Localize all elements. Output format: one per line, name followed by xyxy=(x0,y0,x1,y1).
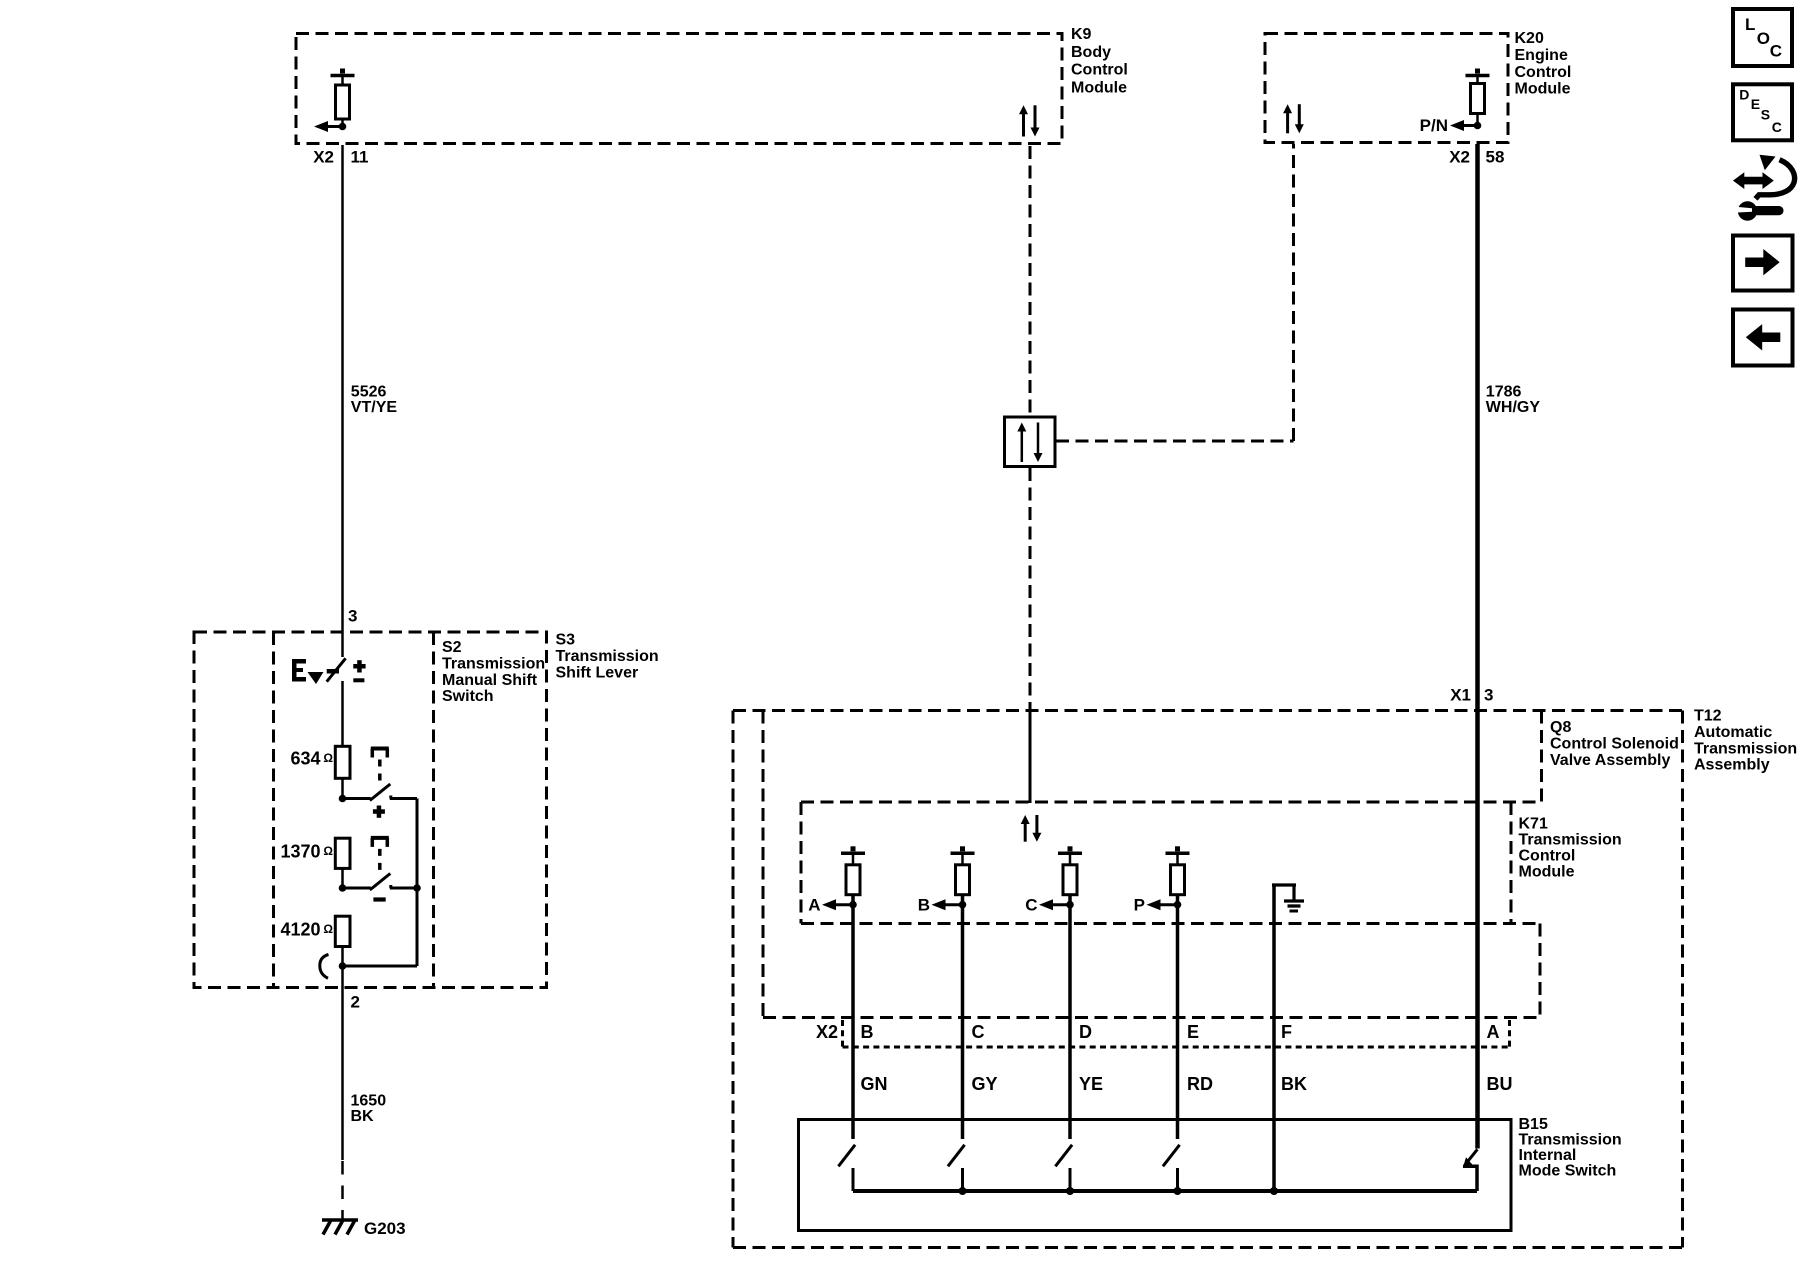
K71 solenoid driver A xyxy=(822,846,865,910)
K20 serial data up/down arrows xyxy=(1283,104,1304,133)
icon LOC box xyxy=(1733,9,1792,66)
B15 Transmission Internal Mode Switch box xyxy=(799,1120,1512,1231)
svg-text:Control Solenoid: Control Solenoid xyxy=(1550,736,1679,753)
svg-text:Mode Switch: Mode Switch xyxy=(1519,1163,1617,1180)
wire color label BK xyxy=(1281,1074,1307,1094)
resistor 4120 ohm xyxy=(335,916,350,946)
K71 Transmission Control Module box (dashed) xyxy=(801,802,1542,924)
wire 634 to junction xyxy=(341,778,344,798)
connector pin letter F xyxy=(1281,1022,1292,1042)
K71 pin letter P xyxy=(1134,895,1145,914)
bottom horizontal wire to rail xyxy=(343,965,418,968)
K20 label xyxy=(1515,30,1572,97)
K71 pin letter B xyxy=(918,895,930,914)
svg-text:Transmission: Transmission xyxy=(1694,740,1797,757)
svg-text:Automatic: Automatic xyxy=(1694,724,1772,741)
wire label 1650 BK xyxy=(351,1093,387,1125)
K71 serial data up/down arrows xyxy=(1021,815,1042,842)
wire color label GN xyxy=(861,1074,888,1094)
wire color label YE xyxy=(1079,1074,1103,1094)
wire below blade to resistor 634 xyxy=(341,681,344,746)
icon next-page box (right arrow) xyxy=(1733,236,1793,291)
svg-text:WH/GY: WH/GY xyxy=(1486,399,1541,416)
svg-text:Module: Module xyxy=(1071,79,1127,96)
B15 BU switch blade with arrow xyxy=(1463,1149,1478,1191)
svg-text:P: P xyxy=(1134,895,1145,914)
svg-text:D: D xyxy=(1079,1022,1092,1042)
dashed data wire connector down to Q8 edge xyxy=(1029,468,1032,706)
svg-text:C: C xyxy=(1770,41,1782,60)
svg-text:Shift Lever: Shift Lever xyxy=(556,664,639,681)
svg-text:K9: K9 xyxy=(1071,26,1092,43)
resistor 634 ohm xyxy=(335,746,350,778)
connector label X2 pin 58 at K20 xyxy=(1449,147,1504,166)
svg-text:4120: 4120 xyxy=(280,919,320,939)
svg-text:L: L xyxy=(1745,15,1755,34)
K71 internal ground symbol xyxy=(1272,885,1304,911)
svg-text:Q8: Q8 xyxy=(1550,719,1571,736)
S2 box inner dashed vertical right xyxy=(432,632,435,988)
T12 Automatic Transmission Assembly box (dashed) xyxy=(733,711,1683,1248)
svg-text:Transmission: Transmission xyxy=(556,648,659,665)
S2 plus-minus symbol xyxy=(353,660,365,682)
svg-text:K71: K71 xyxy=(1519,816,1548,833)
wire YE from K71 to B15 xyxy=(1068,905,1072,1139)
wire color label GY xyxy=(972,1074,998,1094)
wire BK ground from K71 to B15 bus xyxy=(1272,885,1276,1191)
svg-text:Ω: Ω xyxy=(323,751,333,765)
svg-text:X2: X2 xyxy=(313,147,334,166)
label 4120 ohm xyxy=(280,919,333,939)
solid data wire Q8 edge to K71 edge xyxy=(1029,706,1032,803)
svg-text:F: F xyxy=(1281,1022,1292,1042)
svg-text:C: C xyxy=(1772,119,1782,135)
Q8 Control Solenoid Valve Assembly box (dashed) xyxy=(763,711,1542,1018)
K9 label xyxy=(1071,26,1128,96)
G203 label xyxy=(364,1219,406,1238)
svg-text:B: B xyxy=(918,895,930,914)
dashed data wire from K9 to inline connector xyxy=(1029,146,1032,416)
B15 label xyxy=(1519,1116,1622,1180)
svg-text:X2: X2 xyxy=(816,1022,838,1042)
wire GN from K71 to B15 xyxy=(851,905,855,1139)
S3 label xyxy=(556,632,659,682)
S2 label xyxy=(442,639,545,705)
svg-text:T12: T12 xyxy=(1694,708,1722,725)
svg-text:Transmission: Transmission xyxy=(442,656,545,673)
svg-text:YE: YE xyxy=(1079,1074,1103,1094)
svg-text:Engine: Engine xyxy=(1515,47,1568,64)
minus symbol for tap down xyxy=(373,897,385,901)
wire GY from K71 to B15 xyxy=(961,905,965,1139)
wire out of S3 bottom xyxy=(341,966,344,1160)
svg-text:Transmission: Transmission xyxy=(1519,1132,1622,1149)
right rail of S2 switches xyxy=(416,799,419,967)
svg-text:D: D xyxy=(1739,87,1749,103)
K71 pin letter A xyxy=(808,895,820,914)
B15 switch blade for YE wire xyxy=(1055,1145,1072,1191)
svg-text:B: B xyxy=(861,1022,874,1042)
P/N label xyxy=(1420,116,1448,135)
plus symbol for tap up xyxy=(373,806,385,818)
wire above blade inside S2 xyxy=(341,632,344,657)
module K9 Body Control Module box (dashed) xyxy=(296,34,1062,144)
svg-text:E: E xyxy=(1187,1022,1199,1042)
module K20 Engine Control Module box (dashed) xyxy=(1265,34,1508,143)
svg-text:C: C xyxy=(1025,895,1037,914)
svg-text:Manual Shift: Manual Shift xyxy=(442,672,538,689)
wire 1370 to junction xyxy=(341,868,344,888)
pin 3 label at S3 top xyxy=(348,606,357,625)
K9 serial data up/down arrows xyxy=(1019,105,1040,136)
icon prev-page box (left arrow) xyxy=(1733,310,1793,366)
connector X2 label at Q8 bottom xyxy=(816,1022,838,1042)
pin 2 label at S3 bottom xyxy=(351,992,360,1011)
svg-text:X2: X2 xyxy=(1449,147,1470,166)
connector pin letter C xyxy=(972,1022,985,1042)
K20 P/N input driver (coil+resistor) xyxy=(1450,69,1490,132)
junction node on right rail xyxy=(413,884,421,892)
S3 Transmission Shift Lever outer box (dashed) xyxy=(194,632,547,988)
dashed data wire corner up to K20 xyxy=(1292,144,1295,441)
connector pin letter A xyxy=(1487,1022,1500,1042)
svg-text:Internal: Internal xyxy=(1519,1147,1577,1164)
connector pin letter D xyxy=(1079,1022,1092,1042)
icon DESC box xyxy=(1733,84,1792,140)
svg-text:Ω: Ω xyxy=(323,844,333,858)
svg-text:Module: Module xyxy=(1515,81,1571,98)
svg-text:X1: X1 xyxy=(1450,685,1471,704)
wire label 1786 WH/GY xyxy=(1486,384,1541,416)
K71 solenoid driver P xyxy=(1147,846,1190,910)
svg-text:3: 3 xyxy=(348,606,357,625)
S2 tap switch blade xyxy=(327,658,346,681)
connector pin letter E xyxy=(1187,1022,1199,1042)
svg-text:Transmission: Transmission xyxy=(1519,832,1622,849)
K71 label xyxy=(1519,816,1622,881)
svg-text:O: O xyxy=(1757,29,1770,48)
dashed data wire connector to corner xyxy=(1056,440,1294,443)
S2 wiper hook symbol xyxy=(320,955,329,979)
connector label X2 pin 11 at K9 xyxy=(313,147,368,166)
S2 momentary contact - (tap down) xyxy=(346,838,417,890)
svg-text:Ω: Ω xyxy=(323,922,333,936)
svg-text:Module: Module xyxy=(1519,864,1575,881)
junction node below 634 xyxy=(339,795,347,803)
K71 solenoid driver B xyxy=(932,846,975,910)
bus junction dot xyxy=(1174,1187,1182,1195)
svg-text:3: 3 xyxy=(1484,685,1493,704)
bus junction dot xyxy=(1066,1187,1074,1195)
bus junction dot xyxy=(959,1187,967,1195)
junction BK wire on bus xyxy=(1270,1187,1278,1195)
svg-text:VT/YE: VT/YE xyxy=(351,399,398,416)
wire 4120 to bottom junction xyxy=(341,947,344,967)
S2 momentary contact + (tap up) xyxy=(346,749,417,801)
svg-text:S3: S3 xyxy=(556,632,576,649)
svg-text:A: A xyxy=(1487,1022,1500,1042)
K9 output driver (coil+resistor) xyxy=(314,69,355,133)
svg-text:Control: Control xyxy=(1071,62,1128,79)
connector X2 dotted bracket xyxy=(843,1020,1510,1047)
Q8 label xyxy=(1550,719,1679,769)
svg-text:E: E xyxy=(1751,96,1760,112)
B15 switch blade for GY wire xyxy=(948,1145,965,1191)
svg-text:Control: Control xyxy=(1515,64,1572,81)
svg-text:1370: 1370 xyxy=(280,841,320,861)
label 1370 ohm xyxy=(280,841,333,861)
connector label X1 pin 3 at T12 xyxy=(1450,685,1493,704)
svg-text:C: C xyxy=(972,1022,985,1042)
svg-text:GN: GN xyxy=(861,1074,888,1094)
wire label 5526 VT/YE xyxy=(351,384,398,416)
B15 switch blade for RD wire xyxy=(1163,1145,1180,1191)
svg-text:S2: S2 xyxy=(442,639,462,656)
connector pin letter B xyxy=(861,1022,874,1042)
dashed wire to ground xyxy=(341,1161,344,1219)
svg-text:Valve Assembly: Valve Assembly xyxy=(1550,752,1670,769)
ground G203 symbol xyxy=(322,1220,358,1235)
svg-text:Assembly: Assembly xyxy=(1694,757,1770,774)
B15 switch blade for GN wire xyxy=(838,1145,855,1191)
svg-text:BK: BK xyxy=(1281,1074,1307,1094)
wire color label BU xyxy=(1487,1074,1513,1094)
B15 common bus bar xyxy=(853,1189,1477,1193)
svg-text:Switch: Switch xyxy=(442,688,494,705)
svg-text:GY: GY xyxy=(972,1074,998,1094)
svg-text:BU: BU xyxy=(1487,1074,1513,1094)
wire color label RD xyxy=(1187,1074,1213,1094)
svg-text:2: 2 xyxy=(351,992,360,1011)
bottom junction node xyxy=(339,962,347,970)
svg-text:BK: BK xyxy=(351,1108,375,1125)
svg-text:634: 634 xyxy=(290,748,320,768)
svg-text:G203: G203 xyxy=(364,1219,406,1238)
svg-text:B15: B15 xyxy=(1519,1116,1548,1133)
resistor 1370 ohm xyxy=(335,838,350,868)
svg-text:K20: K20 xyxy=(1515,30,1544,47)
svg-text:Body: Body xyxy=(1071,44,1111,61)
K71 solenoid driver C xyxy=(1039,846,1082,910)
junction node below 1370 xyxy=(339,884,347,892)
wire 1786 WH/GY from K20 X2-58 down to B15 xyxy=(1475,144,1480,1149)
svg-text:S: S xyxy=(1761,107,1770,123)
wire 5526 VT/YE from K9 X2-11 to S3 xyxy=(341,145,344,632)
svg-text:RD: RD xyxy=(1187,1074,1213,1094)
svg-text:Control: Control xyxy=(1519,848,1576,865)
inline connector box with up/down arrows xyxy=(1005,417,1056,467)
icon arrows-and-wrench xyxy=(1733,155,1795,221)
S2 box inner dashed vertical left xyxy=(272,632,275,988)
svg-text:11: 11 xyxy=(351,147,369,166)
K71 pin letter C xyxy=(1025,895,1037,914)
svg-text:A: A xyxy=(808,895,820,914)
wire RD from K71 to B15 xyxy=(1176,905,1180,1139)
svg-text:58: 58 xyxy=(1486,147,1505,166)
S2 shift lever symbol E with arrow and dash xyxy=(292,659,339,684)
T12 label xyxy=(1694,708,1797,774)
svg-text:P/N: P/N xyxy=(1420,116,1448,135)
label 634 ohm xyxy=(290,748,333,768)
